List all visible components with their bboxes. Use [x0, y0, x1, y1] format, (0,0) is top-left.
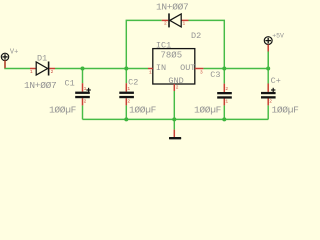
- wire: C2 branch: [125, 69, 127, 84]
- svg-text:C2: C2: [128, 78, 138, 88]
- svg-text:1: 1: [183, 21, 186, 27]
- wire: C3 branch: [223, 69, 225, 84]
- svg-text:1: 1: [30, 69, 33, 75]
- svg-text:1: 1: [84, 86, 87, 92]
- wire: C1 branch: [82, 69, 84, 84]
- svg-text:D1: D1: [37, 54, 47, 64]
- svg-text:1ØØµF: 1ØØµF: [272, 104, 300, 115]
- svg-text:C1: C1: [65, 78, 75, 88]
- svg-text:2: 2: [164, 21, 167, 27]
- svg-text:1ØØµF: 1ØØµF: [129, 104, 157, 115]
- wire: top rail D2 right to output riser: [189, 20, 225, 68]
- node junction GND rail: [172, 117, 176, 121]
- svg-text:IN: IN: [156, 63, 166, 73]
- svg-text:2: 2: [51, 69, 54, 75]
- supply V+: [1, 49, 18, 69]
- capacitor C2: [119, 78, 156, 116]
- node junction C3 riser: [222, 67, 226, 71]
- diode D1: [24, 54, 56, 91]
- svg-text:D2: D2: [191, 31, 201, 41]
- node junction +5V C4: [266, 67, 270, 71]
- svg-text:C+: C+: [271, 76, 281, 86]
- ground: [169, 130, 181, 140]
- svg-text:1: 1: [225, 98, 228, 104]
- wire: C4 branch: [267, 69, 269, 84]
- svg-text:78Ø5: 78Ø5: [161, 50, 183, 60]
- node junction C2 riser: [124, 67, 128, 71]
- wire: ground bottom rail: [83, 118, 269, 120]
- wire: +5V drop: [267, 52, 269, 69]
- wire: IC1 GND drop: [173, 91, 175, 119]
- svg-text:IC1: IC1: [156, 40, 171, 50]
- capacitor C4: [261, 52, 299, 116]
- svg-text:C3: C3: [210, 70, 220, 80]
- wire: left vertical riser to top rail: [126, 20, 161, 68]
- svg-text:OUT: OUT: [180, 63, 195, 73]
- svg-text:+5V: +5V: [272, 32, 284, 39]
- wire: V+ to D1 input net: [5, 61, 30, 69]
- svg-text:1ØØµF: 1ØØµF: [194, 104, 222, 115]
- svg-text:1ØØµF: 1ØØµF: [49, 104, 77, 115]
- IC1 7805 regulator: [148, 40, 203, 91]
- svg-text:V+: V+: [10, 49, 18, 57]
- svg-text:1: 1: [149, 70, 152, 76]
- svg-text:GND: GND: [168, 76, 183, 86]
- node junction C1: [81, 67, 85, 71]
- svg-text:2: 2: [225, 86, 228, 92]
- wire: D1 cathode to IC1 IN: [55, 68, 148, 70]
- diode D2: [156, 1, 201, 41]
- capacitor C3: [194, 70, 232, 115]
- capacitor C1: [49, 78, 91, 115]
- node junction C2 rail: [124, 117, 128, 121]
- svg-text:3: 3: [200, 70, 203, 76]
- svg-text:1N+ØØ7: 1N+ØØ7: [156, 1, 188, 12]
- node junction C3 rail: [222, 117, 226, 121]
- supply +5V: [264, 32, 284, 51]
- svg-text:1N+ØØ7: 1N+ØØ7: [24, 80, 56, 91]
- svg-text:2: 2: [84, 98, 87, 104]
- wire: IC1 OUT to +5V node: [203, 68, 268, 70]
